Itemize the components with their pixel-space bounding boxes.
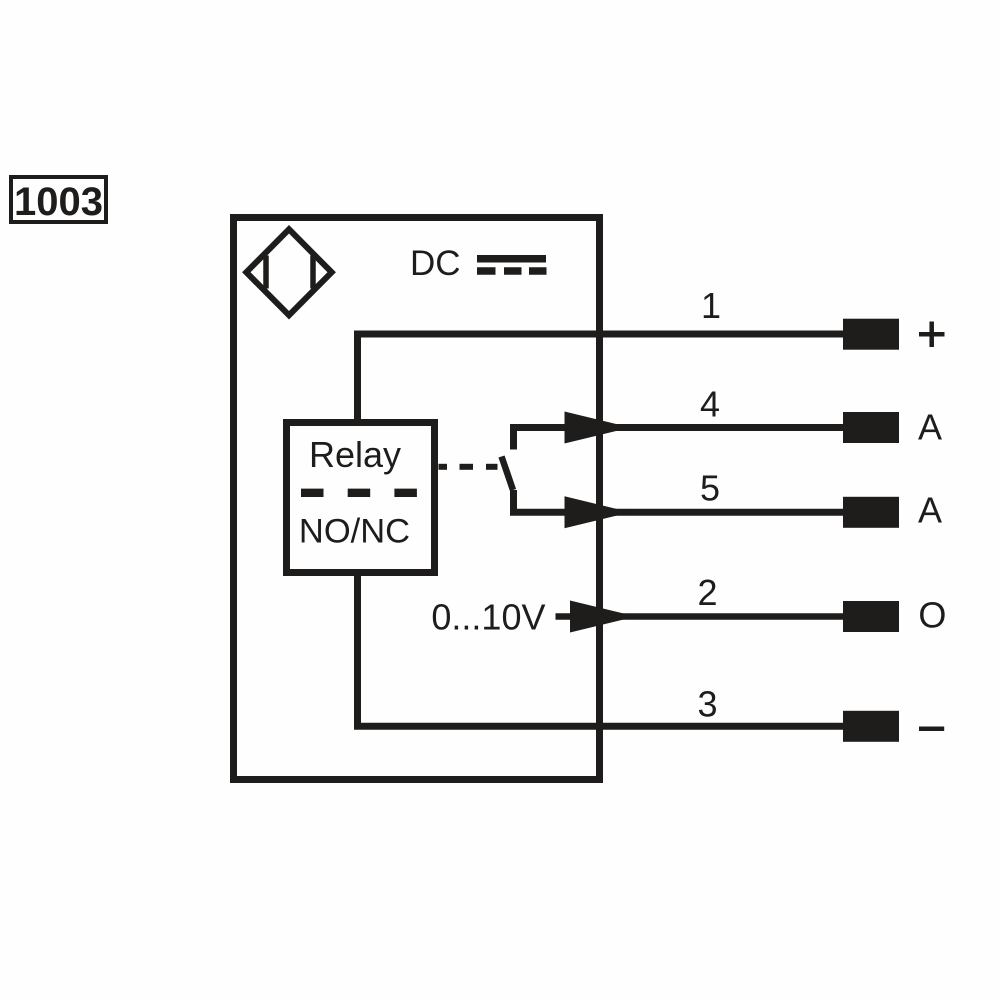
- arrowhead on wire 5: [565, 496, 631, 528]
- switch blade: [502, 457, 514, 491]
- minus label (supply -): [919, 726, 944, 731]
- device outline: [234, 218, 600, 780]
- terminal 1 pad: [843, 319, 899, 350]
- plus label (supply +): [919, 322, 945, 348]
- switch bottom contact and wire 5 to terminal A: [514, 490, 846, 512]
- svg-text:Relay: Relay: [309, 434, 401, 475]
- relay box U1: [287, 423, 435, 573]
- figure label box 1003: [11, 177, 106, 224]
- svg-text:A: A: [918, 407, 942, 448]
- arrowhead on wire 2: [570, 601, 636, 633]
- terminal 5 pad: [843, 497, 899, 528]
- terminal 3 pad: [843, 711, 899, 742]
- svg-text:0...10V: 0...10V: [431, 597, 545, 638]
- wire 2: analog output to terminal O: [556, 613, 846, 620]
- svg-text:1: 1: [701, 285, 721, 326]
- arrowhead on wire 4: [565, 412, 631, 444]
- svg-text:3: 3: [697, 684, 717, 725]
- relay internal dashed divider: [301, 489, 417, 497]
- svg-text:5: 5: [700, 468, 720, 509]
- svg-text:O: O: [918, 594, 946, 635]
- DC symbol (solid bar over dashed bar): [477, 259, 547, 271]
- svg-text:NO/NC: NO/NC: [299, 513, 410, 551]
- dashed actuator link relay to switch: [439, 464, 498, 470]
- terminal 2 pad: [843, 601, 899, 632]
- switch top fixed contact and wire 4 to terminal A: [514, 428, 846, 450]
- svg-text:A: A: [918, 490, 942, 531]
- svg-text:1003: 1003: [14, 180, 103, 224]
- svg-text:2: 2: [697, 572, 717, 613]
- svg-text:4: 4: [700, 384, 720, 425]
- terminal 4 pad: [843, 412, 899, 443]
- wire 3: relay box bottom down and right to terminal 3: [358, 576, 846, 726]
- svg-text:DC: DC: [410, 244, 461, 283]
- wire 1: relay box top up and right to terminal 1: [358, 334, 846, 419]
- sensor symbol (diamond with side triangles): [246, 229, 331, 315]
